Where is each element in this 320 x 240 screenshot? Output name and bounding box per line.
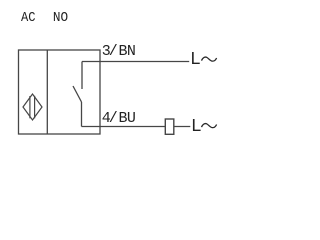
- load (small rectangle): [165, 119, 174, 134]
- svg-text:L: L: [191, 48, 201, 68]
- proximity symbol inner line left: [29, 96, 31, 118]
- svg-text:3/BN: 3/BN: [102, 43, 136, 60]
- sensor body divider: [46, 50, 48, 134]
- proximity sensor symbol (diamond): [23, 94, 42, 120]
- wire 3/BN (top): [82, 61, 189, 63]
- wire 4/BU right segment: [174, 126, 191, 128]
- wire 4/BU left segment: [82, 126, 166, 128]
- svg-text:NO: NO: [53, 10, 68, 26]
- proximity symbol inner line right: [34, 96, 36, 119]
- svg-text:AC: AC: [21, 10, 36, 26]
- AC tilde symbol (bottom): [202, 124, 217, 128]
- AC tilde symbol (top): [202, 57, 217, 61]
- svg-text:L: L: [192, 115, 202, 135]
- switch NO contact: top lead: [81, 62, 83, 90]
- svg-text:4/BU: 4/BU: [102, 110, 136, 127]
- sensor body outline: [19, 50, 101, 134]
- switch NO contact: movable arm: [73, 86, 82, 102]
- switch NO contact: bottom lead: [81, 102, 83, 127]
